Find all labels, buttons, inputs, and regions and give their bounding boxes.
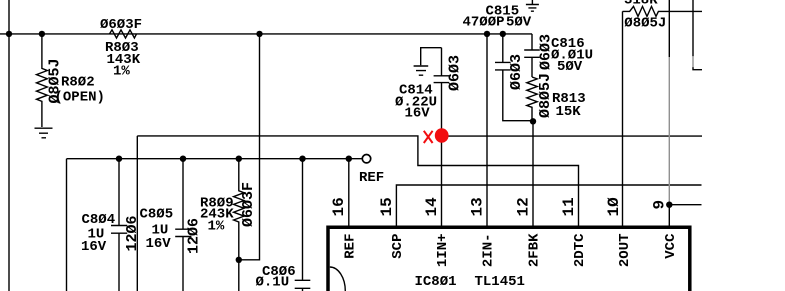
node junction dot C815 top: [500, 31, 506, 37]
svg-text:Ø6Ø3: Ø6Ø3: [538, 34, 555, 70]
svg-text:R8Ø2: R8Ø2: [61, 74, 95, 90]
node junction dot R809 bottom: [236, 257, 242, 263]
svg-text:1%: 1%: [113, 63, 130, 79]
wire corner down left x=66.5: [66, 159, 68, 291]
capacitor C815: [502, 34, 504, 62]
svg-text:2OUT: 2OUT: [617, 234, 633, 268]
wire pin12 vertical: [532, 121, 534, 225]
wire pin9 vertical: [668, 0, 670, 57]
capacitor C814: [441, 48, 443, 76]
wire mid horizontal net y=136 left segment with corner: [137, 136, 578, 226]
svg-text:16: 16: [330, 197, 348, 216]
svg-text:12Ø6: 12Ø6: [186, 218, 203, 254]
svg-text:Ø.1U: Ø.1U: [256, 274, 290, 290]
capacitor C806: [302, 159, 304, 280]
wire C814 to ground jog: [421, 48, 442, 66]
node junction dot R813 bottom: [530, 118, 536, 124]
svg-text:12: 12: [514, 197, 532, 216]
node REF terminal dot: [346, 156, 352, 162]
red X cut mark: [424, 131, 433, 143]
IC notch arc: [330, 267, 346, 291]
svg-text:Ø6Ø3F: Ø6Ø3F: [100, 17, 142, 33]
wire top horizontal net y=34: [0, 33, 532, 35]
wire mid horizontal net y=136 right segment: [442, 135, 703, 137]
wire pin16 vertical: [348, 159, 350, 226]
svg-text:2FBK: 2FBK: [527, 233, 543, 267]
svg-text:Ø6Ø3: Ø6Ø3: [508, 54, 525, 90]
svg-text:16V: 16V: [81, 239, 107, 255]
svg-text:1IN+: 1IN+: [435, 234, 451, 268]
svg-text:318K: 318K: [624, 0, 658, 9]
wire from top net down to R809 bottom x=259.5: [239, 34, 260, 260]
svg-text:5ØV: 5ØV: [557, 59, 583, 75]
svg-text:C8Ø5: C8Ø5: [140, 207, 174, 223]
svg-text:16V: 16V: [405, 106, 431, 122]
svg-text:2IN-: 2IN-: [481, 234, 497, 268]
resistor R809: [234, 159, 244, 291]
capacitor C804: [118, 159, 120, 226]
ground of C814: [414, 66, 429, 75]
svg-text:14: 14: [423, 197, 441, 217]
svg-text:15K: 15K: [556, 104, 582, 120]
red junction dot: [435, 128, 449, 142]
wire mid horizontal net y=158.7: [67, 158, 363, 160]
node junction dot x=259.5 top: [256, 31, 262, 37]
wire pin9 stub right: [669, 204, 701, 206]
svg-text:1%: 1%: [208, 218, 225, 234]
svg-text:16V: 16V: [146, 236, 172, 252]
resistor R803: [110, 30, 137, 38]
node junction dot R802 top: [39, 31, 45, 37]
svg-text:REF: REF: [342, 234, 358, 259]
node junction dot pin13 top: [484, 31, 490, 37]
svg-text:5ØV: 5ØV: [506, 14, 532, 30]
svg-text:13: 13: [468, 197, 486, 216]
svg-text:Ø8Ø5J: Ø8Ø5J: [624, 16, 666, 32]
capacitor C816: [531, 34, 533, 50]
resistor 0805J top right (value cut off): [623, 6, 703, 16]
svg-text:Ø8Ø5J: Ø8Ø5J: [537, 73, 554, 118]
svg-text:1Ø: 1Ø: [605, 197, 623, 217]
ground top (above C816): [526, 0, 539, 11]
svg-text:TL1451: TL1451: [475, 274, 525, 290]
wire pin13 vertical: [486, 34, 488, 226]
node junction dot left: [6, 31, 12, 37]
svg-text:REF: REF: [359, 170, 384, 186]
resistor R813: [527, 77, 537, 121]
node junction dot R809 top: [236, 156, 242, 162]
resistor R802: [37, 34, 48, 127]
wire pin10 vertical: [622, 11, 624, 225]
svg-text:11: 11: [560, 197, 578, 216]
node junction dot C805: [180, 156, 186, 162]
wire pin15 to SCP net: [396, 185, 701, 226]
svg-text:IC8Ø1: IC8Ø1: [415, 274, 457, 290]
svg-text:15: 15: [378, 197, 396, 216]
wire left vertical x=9: [8, 0, 10, 291]
op-amp IC801 TL1451 box: [328, 227, 690, 291]
svg-text:VCC: VCC: [663, 233, 679, 259]
node junction dot C806: [299, 156, 305, 162]
capacitor C805: [182, 159, 184, 229]
node junction dot pin9: [666, 202, 672, 208]
svg-text:(OPEN): (OPEN): [55, 89, 105, 105]
svg-text:9: 9: [651, 200, 669, 210]
svg-text:Ø6Ø3F: Ø6Ø3F: [240, 182, 257, 227]
ground of R802: [35, 128, 53, 138]
wire top right vertical x=693: [692, 0, 694, 56]
svg-text:SCP: SCP: [390, 234, 406, 259]
wire vertical x=137.3 crossing: [136, 136, 138, 291]
svg-text:2DTC: 2DTC: [572, 233, 588, 267]
node junction dot C804: [116, 156, 122, 162]
node REF open circle: [362, 155, 370, 163]
svg-text:Ø6Ø3: Ø6Ø3: [446, 55, 463, 91]
svg-text:47ØØP: 47ØØP: [463, 14, 505, 30]
